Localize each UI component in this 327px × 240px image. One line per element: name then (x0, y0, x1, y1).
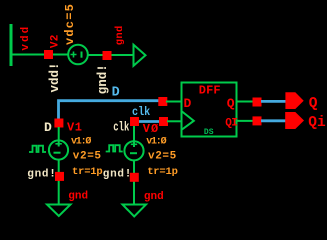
wire V1 bottom stem (58, 160, 60, 206)
svg-text:gnd!: gnd! (27, 168, 56, 180)
wire V2 right stub to gnd (88, 54, 134, 56)
V2 plus sign (71, 52, 77, 58)
svg-text:vdc=5: vdc=5 (63, 3, 77, 45)
wire QI stub (236, 120, 253, 122)
svg-text:Q: Q (309, 96, 318, 112)
pin square V2 left (44, 50, 53, 59)
svg-text:tr=1p: tr=1p (72, 166, 103, 178)
svg-text:gnd: gnd (114, 25, 126, 45)
voltage source V2 body (68, 45, 88, 65)
V1 minus sign (54, 152, 61, 154)
ground symbol (rotated, pointing right) (134, 45, 146, 66)
svg-text:tr=1p: tr=1p (147, 166, 178, 178)
pin square V0 top (130, 117, 139, 126)
vdd supply rail bar (10, 24, 13, 66)
svg-text:Qi: Qi (308, 115, 326, 131)
svg-text:clk: clk (113, 120, 129, 135)
V0 plus tick (131, 143, 137, 145)
svg-text:V2: V2 (49, 34, 61, 48)
V1 pulse waveform icon (29, 146, 46, 152)
svg-text:D: D (184, 96, 192, 111)
svg-text:D: D (112, 86, 120, 101)
wire V0 top stem (133, 126, 135, 147)
V0 pulse waveform icon (106, 145, 123, 151)
pin square V1 bottom (55, 172, 64, 181)
wire clk stub into DFF (167, 120, 182, 122)
svg-text:v2=5: v2=5 (148, 151, 177, 163)
DFF U1 body (182, 83, 237, 137)
V1 plus tick (55, 143, 61, 145)
wire Qi net (blue) (261, 119, 286, 122)
wire vdd rail to V2 plus pin (10, 54, 45, 56)
junction square Q (253, 98, 262, 107)
svg-text:gnd: gnd (144, 191, 164, 203)
svg-text:clk: clk (132, 105, 150, 119)
wire Q net (blue) (261, 100, 286, 103)
ground symbol V1 (47, 205, 71, 217)
voltage source V0 body (124, 141, 143, 160)
junction square D (158, 97, 167, 106)
voltage source V1 body (49, 140, 68, 159)
pin square V0 bottom (130, 173, 139, 182)
wire V2 left stub (53, 54, 69, 56)
svg-text:DS: DS (204, 128, 214, 137)
svg-text:gnd!: gnd! (103, 168, 132, 180)
ground symbol V0 (123, 205, 147, 217)
V2 minus sign (81, 52, 83, 58)
svg-text:v1:Ø: v1:Ø (71, 136, 91, 148)
output pin Q (285, 92, 303, 109)
svg-text:DFF: DFF (199, 84, 221, 98)
wire D stub into DFF (166, 101, 182, 103)
svg-text:QI: QI (225, 118, 237, 130)
svg-text:VØ: VØ (143, 122, 159, 136)
wire D net (blue) (59, 101, 163, 119)
svg-text:v1:Ø: v1:Ø (146, 136, 166, 148)
wire V0 bottom stem (133, 160, 135, 205)
pin square V2 right (103, 51, 112, 60)
V0 minus sign (130, 152, 137, 154)
wire Q stub (236, 101, 253, 103)
svg-text:gnd!: gnd! (96, 64, 110, 94)
svg-text:V1: V1 (67, 121, 83, 135)
DFF clock triangle (182, 112, 194, 130)
junction square QI (253, 116, 262, 125)
svg-text:vdd!: vdd! (48, 62, 62, 92)
svg-text:D: D (44, 120, 52, 135)
wire V1 top stem (58, 127, 60, 147)
wire clk net (blue) (138, 120, 160, 123)
pin square V1 top (54, 119, 63, 128)
output pin Qi (285, 112, 304, 129)
svg-text:Q: Q (227, 96, 235, 111)
svg-text:v2=5: v2=5 (73, 151, 102, 163)
svg-text:gnd: gnd (68, 191, 88, 203)
junction square clk (159, 117, 168, 126)
svg-text:vdd: vdd (20, 25, 32, 51)
